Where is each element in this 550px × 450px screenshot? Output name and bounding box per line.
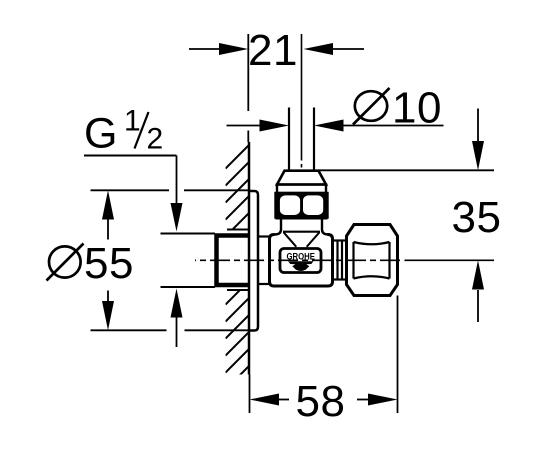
dim 58 left arrow <box>278 399 289 401</box>
wall section hatching <box>226 144 251 407</box>
dim 35 top extension line <box>319 169 495 171</box>
wall hole top edge <box>227 229 249 231</box>
dim O10 right arrow and leader <box>341 125 444 127</box>
compression fitting ring <box>277 185 326 194</box>
compression fitting cone <box>277 171 326 185</box>
dim 58 right extension line <box>397 296 399 414</box>
fitting neck bottom line <box>283 231 320 233</box>
svg-text:1: 1 <box>124 105 141 138</box>
union nut facet lines <box>354 242 390 279</box>
dim 58 right arrow <box>357 399 369 401</box>
dim O55 top extension line <box>91 189 170 191</box>
wall hole bottom edge <box>227 289 249 291</box>
dim 35 bottom arrow <box>477 290 479 322</box>
dim 21 left arrow <box>189 48 222 50</box>
svg-text:58: 58 <box>296 377 346 426</box>
svg-text:35: 35 <box>452 193 502 242</box>
vertical axis centerline / extension of dim 21 <box>301 34 303 161</box>
dim G1/2 top arrow <box>176 156 178 206</box>
outlet tube to union nut <box>333 241 349 280</box>
union compression nut outline <box>347 225 398 296</box>
male thread tube G1/2 inlet <box>161 234 216 288</box>
GROHE laurel emblem <box>288 261 314 271</box>
svg-text:10: 10 <box>392 83 442 132</box>
horizontal axis centerline <box>195 259 400 261</box>
dim O55 bottom arrow <box>107 291 109 303</box>
dim 35 top arrow <box>477 109 479 146</box>
dim O55 bottom extension line <box>91 329 167 331</box>
valve body barrel <box>270 235 333 287</box>
dim 21 extension line at wall face <box>247 34 249 111</box>
wall face line <box>248 142 251 375</box>
dim O55 top arrow <box>107 219 109 240</box>
body flare V lines <box>284 232 320 247</box>
dim O10 left arrow <box>227 125 263 127</box>
flange escutcheon plate O55 <box>249 191 258 331</box>
dim G1/2 bottom arrow <box>176 317 178 347</box>
vertical outlet pipe O10 <box>289 108 314 171</box>
fitting neck sides with fillets into body <box>275 216 329 235</box>
svg-text:21: 21 <box>248 26 298 75</box>
washer rings <box>338 241 343 280</box>
compression fitting hex nut <box>276 193 328 218</box>
GROHE label plate <box>280 249 321 273</box>
svg-text:G: G <box>84 110 117 158</box>
dim 58 left extension line <box>249 375 251 414</box>
male thread block in wall <box>217 236 249 286</box>
dim 21 right arrow <box>330 48 364 50</box>
svg-text:2: 2 <box>147 123 164 156</box>
dim G1/2 underline <box>84 155 177 157</box>
neck between flange and body <box>258 237 270 285</box>
svg-text:55: 55 <box>84 239 134 288</box>
